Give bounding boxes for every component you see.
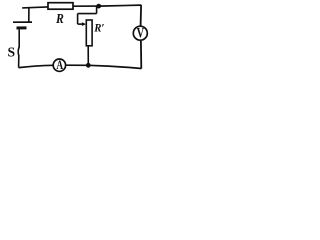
wire switch to bottom-left corner [18,55,20,68]
battery B1 short thick plate [17,26,27,29]
wire resistor R to junction node [73,5,99,7]
svg-text:A: A [56,59,63,73]
wire rheostat bottom drop [87,46,89,66]
svg-text:R: R [55,11,64,26]
wire wiper arrow shaft [78,23,85,25]
svg-text:S: S [8,45,16,60]
wire bottom-right (junction to corner) [88,65,141,68]
wire battery negative drop [18,30,20,48]
wire bottom-left (corner to ammeter A) [19,65,53,67]
node junction dot top [96,4,101,9]
wire top-right vertical (corner to voltmeter) [140,5,143,26]
resistor R box [48,3,73,10]
battery B1 long plate [13,21,32,23]
rheostat R' box [86,20,92,46]
svg-text:V: V [137,25,145,41]
wiper arrowhead [82,22,86,26]
node junction dot bottom [86,63,91,68]
wire wiper jog vertical [77,14,79,25]
wire voltmeter to bottom-right corner [140,41,142,69]
switch S blade [18,47,19,56]
ammeter U2 circle [53,59,65,71]
wire wiper jog horizontal [78,13,97,15]
wire top-left horizontal (battery corner to resistor R) [22,7,48,8]
wire battery positive riser [28,8,30,22]
wire junction to top-right corner [99,5,142,6]
wire ammeter to bottom junction [66,64,88,66]
svg-text:R′: R′ [93,22,104,35]
wire junction drop to wiper jog [96,6,98,14]
voltmeter U1 circle [133,26,147,40]
